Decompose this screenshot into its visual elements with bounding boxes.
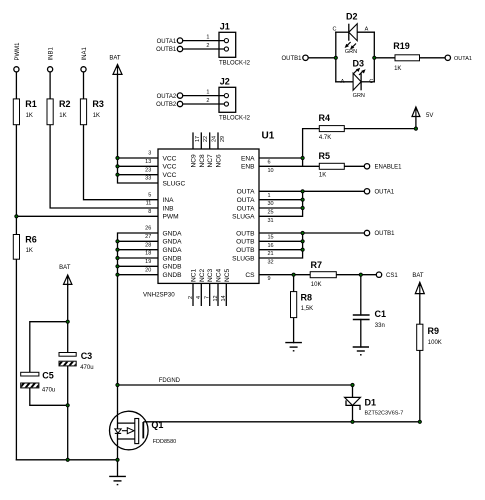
- svg-text:R2: R2: [59, 99, 71, 109]
- svg-text:INB1: INB1: [49, 46, 55, 60]
- wire BAT3 to R9: [419, 294, 421, 325]
- wire R1 to R6 rail: [15, 125, 17, 235]
- wire bottom horizontal: [16, 459, 117, 461]
- wire C1 branch: [360, 275, 362, 315]
- connector J1: [183, 22, 251, 67]
- svg-text:27: 27: [145, 234, 151, 240]
- svg-text:OUTA1: OUTA1: [375, 190, 395, 196]
- wire C5 bottom branch: [30, 388, 68, 405]
- wire VCC pin 23: [118, 174, 159, 176]
- wire C5 top branch: [30, 322, 68, 373]
- svg-text:R9: R9: [428, 326, 440, 336]
- svg-text:28: 28: [145, 242, 151, 248]
- svg-text:1: 1: [206, 35, 209, 41]
- wire INB1 to R2: [49, 72, 51, 99]
- resistor R6: [13, 235, 37, 260]
- svg-text:470u: 470u: [80, 365, 93, 371]
- svg-text:OUTA: OUTA: [237, 205, 255, 212]
- wire R19 to OUTA1 terminal: [420, 57, 446, 59]
- svg-text:20: 20: [145, 267, 151, 273]
- svg-text:4.7K: 4.7K: [319, 135, 331, 141]
- wire C3 bottom: [67, 366, 69, 460]
- wire Q1 gate to D1/R9: [146, 421, 420, 423]
- svg-text:Q1: Q1: [151, 420, 163, 430]
- svg-text:NC6: NC6: [216, 154, 223, 168]
- svg-text:1K: 1K: [394, 66, 401, 72]
- svg-text:13: 13: [145, 159, 151, 165]
- wire VCC pin 13: [118, 165, 159, 167]
- svg-text:23: 23: [145, 167, 151, 173]
- wire R4 to 5V: [344, 117, 416, 129]
- svg-text:1K: 1K: [319, 173, 326, 179]
- svg-text:FDGND: FDGND: [159, 378, 181, 384]
- wire D3 leads: [336, 81, 353, 83]
- svg-text:BAT: BAT: [109, 56, 121, 62]
- resistor R9: [417, 324, 442, 350]
- svg-text:9: 9: [268, 276, 271, 282]
- wire R5 to ENABLE1: [344, 165, 364, 167]
- power BAT top: [109, 56, 122, 75]
- wire GNDB pin 19: [118, 265, 159, 267]
- wire D2 leads: [336, 31, 349, 33]
- svg-text:GNDB: GNDB: [163, 255, 183, 262]
- resistor R3: [80, 99, 104, 125]
- svg-text:D3: D3: [353, 59, 365, 69]
- svg-text:GNDB: GNDB: [163, 264, 183, 271]
- U1 left pin numbers: [145, 151, 151, 274]
- svg-text:R7: R7: [311, 260, 323, 270]
- svg-text:VNH2SP30: VNH2SP30: [143, 292, 175, 299]
- svg-text:ENB: ENB: [241, 164, 255, 171]
- power 5V: [412, 107, 433, 120]
- wire OUTA pin 1 to OUTA1: [259, 190, 364, 192]
- svg-text:R3: R3: [92, 99, 104, 109]
- wire INA1 to R3: [83, 72, 85, 99]
- svg-text:OUTA1: OUTA1: [454, 56, 472, 62]
- wire OUTB pin 15 to OUTB1: [259, 232, 364, 234]
- resistor R7: [310, 260, 336, 288]
- wire BAT2 to cap rail: [67, 286, 69, 353]
- wire R7 to CS1: [336, 274, 376, 276]
- svg-text:ENABLE1: ENABLE1: [375, 165, 403, 171]
- svg-text:TBLOCK-I2: TBLOCK-I2: [219, 60, 251, 66]
- wire LED loop to R19: [374, 57, 395, 59]
- svg-text:22: 22: [203, 136, 209, 142]
- svg-text:OUTB1: OUTB1: [156, 47, 177, 53]
- svg-text:OUTB: OUTB: [236, 230, 255, 237]
- svg-text:NC9: NC9: [191, 154, 198, 168]
- wire GNDA pin 28: [118, 249, 159, 251]
- resistor R19: [393, 41, 419, 72]
- wire D1 anode: [352, 385, 354, 397]
- capacitor C3 electrolytic: [57, 351, 94, 371]
- U1 left pin labels: [163, 155, 186, 279]
- svg-text:GNDA: GNDA: [163, 239, 183, 246]
- ground under Q1: [109, 476, 126, 484]
- svg-text:R8: R8: [301, 293, 313, 303]
- svg-text:17: 17: [195, 136, 201, 142]
- svg-text:C: C: [369, 79, 373, 85]
- svg-text:10: 10: [268, 168, 274, 174]
- wire GNDB pin 20: [118, 274, 159, 276]
- svg-text:1K: 1K: [59, 113, 66, 119]
- svg-text:SLUGB: SLUGB: [232, 255, 255, 262]
- svg-text:VCC: VCC: [163, 172, 177, 179]
- capacitor C5 electrolytic: [19, 371, 56, 394]
- svg-text:A: A: [341, 79, 345, 85]
- svg-text:14: 14: [221, 295, 227, 301]
- svg-text:NC1: NC1: [191, 268, 198, 282]
- svg-text:4: 4: [196, 296, 202, 299]
- wire GND bus to Q1 drain: [117, 385, 119, 412]
- svg-text:5V: 5V: [426, 113, 433, 119]
- resistor R5: [319, 151, 345, 179]
- wire GNDA pin 27: [118, 240, 159, 242]
- svg-text:12: 12: [213, 295, 219, 301]
- svg-text:SLUGC: SLUGC: [163, 180, 186, 187]
- terminal OUTB1 top right: [281, 55, 308, 62]
- terminal OUTA2 J2: [157, 93, 183, 100]
- svg-text:5: 5: [148, 192, 151, 198]
- svg-text:15: 15: [268, 235, 274, 241]
- svg-text:6: 6: [268, 160, 271, 166]
- svg-text:D1: D1: [365, 398, 377, 408]
- svg-text:8: 8: [148, 209, 151, 215]
- op IC U1 VNH2SP30: [143, 131, 275, 299]
- svg-text:470u: 470u: [42, 388, 55, 394]
- svg-text:NC5: NC5: [224, 268, 231, 282]
- svg-text:100K: 100K: [428, 340, 442, 346]
- wire OUTA pin 25: [259, 207, 303, 209]
- svg-text:R1: R1: [25, 99, 37, 109]
- transistor Q1 FDD8580: [110, 411, 177, 450]
- svg-text:C5: C5: [42, 371, 54, 381]
- svg-text:1,5K: 1,5K: [301, 306, 313, 312]
- svg-text:30: 30: [268, 201, 274, 207]
- power BAT left: [59, 265, 72, 286]
- wire SLUGA pin 31: [259, 191, 303, 216]
- svg-text:29: 29: [220, 136, 226, 142]
- svg-text:CS: CS: [245, 272, 255, 279]
- terminal OUTA1 J1: [157, 38, 183, 45]
- svg-text:SLUGA: SLUGA: [232, 214, 255, 221]
- resistor R1: [13, 99, 37, 125]
- wire OUTA pin 30: [259, 199, 303, 201]
- svg-text:A: A: [365, 27, 369, 33]
- terminal CS1: [376, 272, 398, 279]
- svg-text:VCC: VCC: [163, 164, 177, 171]
- svg-text:11: 11: [146, 201, 152, 207]
- svg-text:R19: R19: [393, 41, 410, 51]
- wire PWM1 to R1: [15, 72, 17, 99]
- svg-text:25: 25: [268, 210, 274, 216]
- wire GNDA pin 26 to GND bus: [118, 233, 159, 385]
- wire ENA pin 6: [259, 157, 303, 159]
- terminal PWM1: [14, 42, 21, 72]
- svg-text:ENA: ENA: [241, 155, 255, 162]
- U1 bottom NC labels: [191, 268, 231, 282]
- svg-text:CS1: CS1: [386, 273, 398, 279]
- svg-text:NC3: NC3: [207, 268, 214, 282]
- svg-text:GNDB: GNDB: [163, 272, 183, 279]
- U1 top NC labels: [191, 154, 223, 168]
- svg-text:OUTA1: OUTA1: [157, 39, 177, 45]
- U1 right pin numbers: [268, 160, 274, 283]
- wire R2 to INB pin 11: [50, 125, 158, 208]
- svg-text:24: 24: [212, 136, 218, 142]
- svg-text:OUTA: OUTA: [237, 197, 255, 204]
- svg-text:NC2: NC2: [199, 268, 206, 282]
- svg-text:OUTB2: OUTB2: [156, 102, 177, 108]
- terminal OUTA1 top right: [445, 55, 472, 62]
- svg-text:19: 19: [145, 259, 151, 265]
- svg-text:1K: 1K: [93, 113, 100, 119]
- wire C1 to ground: [360, 320, 362, 348]
- svg-text:OUTA2: OUTA2: [157, 94, 177, 100]
- wire SLUGB pin 32: [259, 233, 303, 258]
- wire right bus vertical R4: [303, 129, 320, 167]
- wire LED loop left vertical: [335, 32, 337, 82]
- wire LED loop right vertical: [373, 32, 375, 82]
- svg-text:3: 3: [148, 151, 151, 157]
- svg-text:BAT: BAT: [59, 265, 71, 271]
- svg-text:OUTB: OUTB: [236, 239, 255, 246]
- svg-text:INB: INB: [163, 205, 175, 212]
- svg-text:NC7: NC7: [207, 154, 214, 168]
- svg-text:PWM: PWM: [163, 214, 179, 221]
- svg-text:1: 1: [206, 90, 209, 96]
- wire CS pin 9 to R7: [259, 274, 310, 276]
- svg-text:GNDA: GNDA: [163, 230, 183, 237]
- wire FDGND net: [118, 384, 353, 386]
- ground under C1: [353, 347, 369, 355]
- capacitor C1: [353, 315, 370, 320]
- wire D1 cathode: [352, 405, 354, 421]
- svg-text:2: 2: [206, 43, 209, 49]
- svg-text:NC4: NC4: [216, 268, 223, 282]
- resistor R4: [319, 113, 345, 141]
- svg-text:32: 32: [268, 260, 274, 266]
- U1 bottom pin numbers: [188, 295, 227, 301]
- svg-text:C: C: [333, 27, 337, 33]
- svg-text:R4: R4: [319, 113, 331, 123]
- svg-text:1: 1: [268, 193, 271, 199]
- svg-text:FDD8580: FDD8580: [153, 439, 177, 445]
- LED D3: [341, 59, 374, 100]
- svg-text:GNDA: GNDA: [163, 247, 183, 254]
- power BAT right: [412, 273, 424, 293]
- svg-text:10K: 10K: [311, 282, 322, 288]
- resistor R2: [47, 99, 71, 125]
- svg-text:R6: R6: [25, 235, 37, 245]
- wire OUTB pin 16: [259, 240, 303, 242]
- terminal OUTB2 J2: [156, 101, 183, 108]
- svg-text:1K: 1K: [26, 113, 33, 119]
- svg-text:33: 33: [145, 176, 151, 182]
- wire VCC pin 3: [118, 157, 159, 159]
- svg-text:16: 16: [268, 243, 274, 249]
- svg-text:OUTB: OUTB: [236, 247, 255, 254]
- U1 bottom NC stubs: [193, 283, 226, 306]
- LED D2: [333, 12, 369, 56]
- wire OUTB1 terminal to LED loop: [308, 57, 336, 59]
- svg-text:OUTB1: OUTB1: [281, 56, 302, 62]
- svg-text:7: 7: [205, 296, 211, 299]
- svg-text:GRN: GRN: [345, 49, 357, 55]
- svg-text:21: 21: [268, 251, 274, 257]
- diode D1 zener: [345, 397, 404, 416]
- svg-text:J2: J2: [220, 77, 230, 87]
- wire ENB pin 10 to R5: [259, 165, 319, 167]
- svg-text:NC8: NC8: [199, 154, 206, 168]
- svg-text:J1: J1: [220, 22, 230, 32]
- U1 right pin labels: [232, 155, 255, 279]
- wire GNDB pin 18: [118, 257, 159, 259]
- wire BAT to VCC bus: [118, 74, 159, 183]
- svg-text:OUTA: OUTA: [237, 189, 255, 196]
- svg-text:TBLOCK-I2: TBLOCK-I2: [219, 115, 251, 121]
- svg-text:D2: D2: [346, 12, 358, 22]
- terminal INB1: [48, 46, 55, 71]
- svg-text:OUTB1: OUTB1: [375, 231, 396, 237]
- terminal OUTA1 right: [364, 189, 394, 196]
- svg-text:R5: R5: [319, 151, 331, 161]
- terminal OUTB1 right: [364, 230, 395, 237]
- svg-text:INA: INA: [163, 197, 175, 204]
- svg-text:33n: 33n: [375, 323, 385, 329]
- svg-text:1K: 1K: [26, 248, 33, 254]
- svg-text:31: 31: [268, 218, 274, 224]
- svg-text:26: 26: [145, 226, 151, 232]
- U1 top NC stubs: [193, 132, 218, 149]
- wire OUTB pin 21: [259, 249, 303, 251]
- resistor R8: [291, 292, 314, 318]
- wire R3 to INA pin 5: [84, 125, 159, 200]
- svg-text:INA1: INA1: [82, 46, 88, 60]
- terminal OUTB1 J1: [156, 46, 183, 53]
- wire Q1 source to ground: [117, 450, 119, 477]
- ground under R8: [285, 343, 302, 351]
- svg-text:18: 18: [145, 251, 151, 257]
- svg-text:2: 2: [188, 296, 194, 299]
- svg-text:C3: C3: [81, 351, 93, 361]
- svg-text:GRN: GRN: [353, 93, 365, 99]
- svg-text:VCC: VCC: [163, 155, 177, 162]
- wire R8 branch: [293, 275, 295, 292]
- svg-text:U1: U1: [262, 131, 275, 142]
- terminal ENABLE1: [364, 164, 402, 171]
- connector J2: [183, 77, 251, 122]
- U1 top pin numbers: [195, 136, 226, 142]
- wire R6 to bottom rail: [15, 259, 17, 460]
- wire R8 to ground: [293, 318, 295, 343]
- wire PWM pin 8: [16, 215, 158, 217]
- wire R9 to gate net: [419, 350, 421, 421]
- terminal INA1: [81, 46, 88, 71]
- svg-text:2: 2: [206, 98, 209, 104]
- svg-text:C1: C1: [375, 309, 387, 319]
- svg-text:PWM1: PWM1: [15, 42, 21, 61]
- svg-text:BZT52C3V6S-7: BZT52C3V6S-7: [365, 410, 404, 416]
- svg-text:BAT: BAT: [412, 273, 424, 279]
